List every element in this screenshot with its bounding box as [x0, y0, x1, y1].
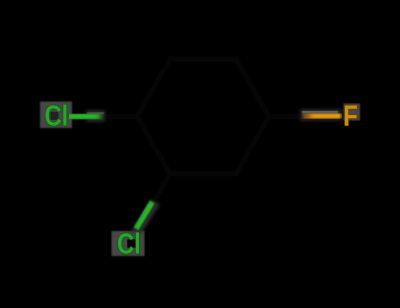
svg-text:F: F: [343, 99, 358, 132]
svg-text:Cl: Cl: [117, 227, 141, 260]
svg-text:Cl: Cl: [45, 99, 69, 132]
